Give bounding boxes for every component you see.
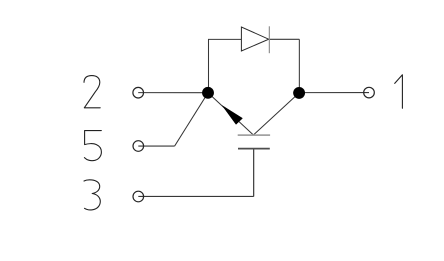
wire right node to terminal1 <box>299 92 369 94</box>
transistor Q1 channel bar <box>238 134 270 136</box>
label 5 <box>84 131 101 161</box>
transistor Q1 source arrowhead pointing to node <box>222 106 242 125</box>
label 3 <box>84 180 100 210</box>
wire diode loop right vertical <box>298 39 300 93</box>
wire diode loop top left horizontal <box>208 38 241 40</box>
wire diode loop top right horizontal <box>269 38 299 40</box>
wire terminal5 horizontal <box>138 145 174 147</box>
diode D1 cathode bar <box>268 26 270 53</box>
wire diode loop left vertical <box>208 39 210 92</box>
node junction left <box>202 87 214 99</box>
node junction right <box>293 87 305 99</box>
terminal circle 3 <box>133 191 144 202</box>
transistor Q1 gate bar <box>238 148 270 150</box>
wire gate horizontal to terminal3 <box>138 195 253 197</box>
label 2 <box>84 76 100 108</box>
label 1 <box>395 75 403 109</box>
terminal circle 5 <box>133 141 144 152</box>
diode D1 triangle <box>241 27 268 51</box>
terminal circle 2 <box>133 87 144 98</box>
terminal circle 1 <box>364 87 375 98</box>
wire terminal2 to left node <box>138 92 208 94</box>
transistor Q1 source diagonal <box>208 93 253 135</box>
wire gate vertical <box>253 149 255 197</box>
wire terminal5 diagonal to left node <box>175 93 208 146</box>
transistor Q1 drain diagonal <box>253 93 299 135</box>
